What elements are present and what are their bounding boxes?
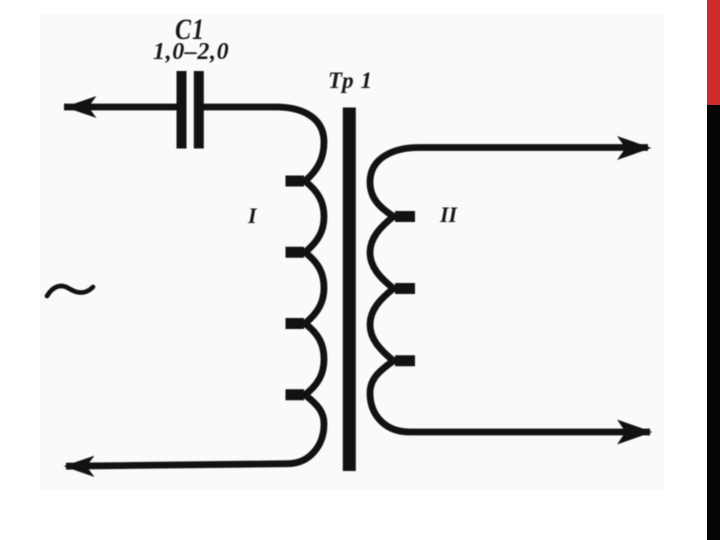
AC source symbol ~ [47, 286, 93, 296]
label II (secondary winding) [440, 202, 457, 228]
scanned image background [40, 14, 664, 490]
label Tp 1 [328, 68, 373, 94]
arrow on top-right wire (points right) [617, 136, 652, 160]
arrow on top-left wire (points left) [65, 96, 97, 118]
wire + transformer secondary winding II (arcs bulging left toward core) [370, 148, 650, 433]
slide accent bar red [707, 0, 720, 105]
cusp tick 3 of secondary winding [395, 355, 415, 366]
cusp tick 1 of secondary winding [395, 211, 415, 222]
cusp tick 1 of primary winding [286, 176, 305, 187]
cusp tick 4 of primary winding [286, 389, 305, 400]
arrow on bottom-right wire (points right) [617, 420, 653, 445]
cusp tick 3 of primary winding [286, 318, 305, 329]
wire: top-left segment from arrow to capacitor C1 [64, 104, 178, 111]
arrow on bottom-left wire (points left) [64, 456, 95, 477]
wire + transformer primary winding I (arcs bulging right toward core) [66, 107, 324, 466]
label I (primary winding) [248, 203, 257, 229]
transformer Tp1 core bar [343, 108, 356, 472]
slide accent bar black [707, 105, 720, 540]
capacitor C1 left plate [177, 71, 187, 149]
cusp tick 2 of secondary winding [395, 283, 415, 294]
label C1 [175, 14, 205, 48]
value label 1,0-2,0 [153, 39, 229, 66]
cusp tick 2 of primary winding [286, 247, 305, 258]
capacitor C1 right plate [194, 71, 204, 149]
